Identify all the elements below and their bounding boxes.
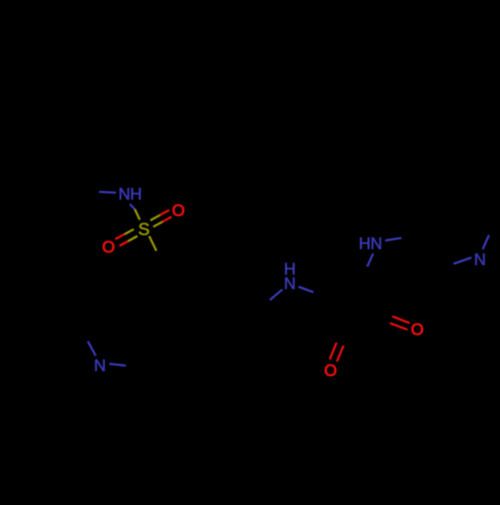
wire S=O upper double bond line1 red — [160, 210, 169, 215]
wire N(amine)-C right stub — [109, 364, 125, 366]
wire S=O lower double bond line1 red — [115, 234, 124, 239]
wire N-S bond olive half — [135, 209, 140, 219]
wire C=O right double bond line1 — [392, 316, 409, 323]
wire pyridine N up-right stub — [483, 235, 489, 249]
svg-text:N: N — [474, 251, 486, 269]
wire S=O upper double bond line2 olive — [153, 222, 162, 227]
wire S=O lower double bond line2 red — [119, 241, 128, 246]
svg-text:O: O — [324, 362, 337, 380]
wire CH3-N bond (N half) — [99, 191, 116, 194]
wire S=O upper double bond line1 olive — [150, 215, 159, 220]
svg-text:N: N — [94, 357, 106, 375]
wire S=O upper double bond line2 red — [162, 217, 171, 222]
svg-text:NH: NH — [118, 186, 141, 204]
svg-text:N: N — [284, 275, 296, 293]
svg-text:O: O — [102, 239, 115, 257]
svg-text:HN: HN — [359, 235, 382, 253]
wire HN right stub — [385, 238, 401, 241]
wire central NH down-left stub — [270, 289, 283, 300]
wire C=O right double bond line2 — [390, 323, 408, 330]
svg-text:S: S — [138, 219, 150, 239]
wire central NH right stub — [299, 287, 314, 293]
wire C=O left double bond line1 — [330, 343, 337, 360]
svg-text:O: O — [411, 321, 424, 339]
wire pyridine N down-left stub — [454, 258, 472, 264]
svg-text:O: O — [172, 202, 185, 220]
wire HN down-left stub — [367, 253, 373, 266]
wire N-S bond blue half — [130, 204, 135, 209]
wire C=O left double bond line2 — [337, 346, 344, 362]
wire S=O lower double bond line1 olive — [125, 229, 134, 234]
wire S=O lower double bond line2 olive — [128, 236, 137, 241]
wire N(amine)-CH3 up-left stub — [88, 341, 96, 355]
wire S-CH3 bond (S half) — [149, 236, 156, 251]
